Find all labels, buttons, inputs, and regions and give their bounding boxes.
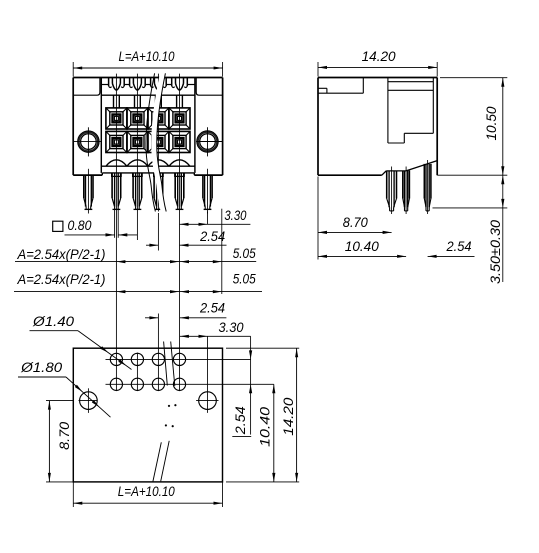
label Ø1.40 with leader: [30, 314, 132, 370]
svg-text:0.80: 0.80: [68, 218, 92, 233]
svg-text:Ø1.80: Ø1.80: [20, 360, 63, 375]
dimension 8.70 (big hole to board edge): [46, 401, 73, 482]
svg-text:2.54: 2.54: [446, 239, 472, 254]
front view solder pin col2: [133, 173, 142, 209]
front view solder pin col1: [112, 173, 121, 209]
svg-text:10.50: 10.50: [484, 106, 499, 140]
side view front pin row: [387, 171, 397, 211]
footprint break lines: [153, 342, 175, 482]
front view bottom scallop arcs: [101, 160, 195, 166]
svg-text:3.50±0.30: 3.50±0.30: [488, 219, 503, 284]
footprint right big hole (diam 1.80): [196, 336, 218, 413]
front view flange solder pin left: [84, 175, 93, 209]
dimension 14.20 (side view width): [318, 49, 437, 76]
dimension 14.20 vertical (board height): [226, 348, 299, 482]
label Ø1.80 with leader: [18, 360, 111, 417]
svg-text:5.05: 5.05: [233, 271, 256, 286]
svg-text:2.54: 2.54: [199, 301, 225, 316]
front view right flange mounting hole: [196, 127, 223, 156]
footprint small holes grid (diam 1.40): [106, 353, 274, 392]
dimension 2.54 (front pin pitch): [146, 229, 227, 247]
extension lines from front pins: [116, 212, 207, 392]
svg-text:A=2.54x(P/2-1): A=2.54x(P/2-1): [17, 247, 106, 262]
dimension 2.54 (footprint hole pitch): [145, 301, 226, 320]
dimension 3.30 (front last pin to flange pin): [180, 208, 251, 294]
front view flange pin centre lines: [88, 169, 207, 214]
side view internal contact chamber: [388, 78, 433, 144]
svg-text:10.40: 10.40: [257, 406, 272, 447]
svg-text:2.54: 2.54: [199, 229, 225, 244]
front view recess walls: [101, 78, 195, 173]
front view top corner blocks: [73, 78, 222, 96]
side view middle pin: [403, 171, 410, 211]
front view solder pin col4: [175, 173, 184, 209]
side view body outline: [318, 78, 437, 176]
side view rear pin: [424, 164, 431, 211]
svg-text:14.20: 14.20: [362, 49, 396, 64]
front view contact sockets (2 rows x 4): [106, 108, 190, 153]
front view flange solder pin right: [203, 175, 212, 209]
front view left flange mounting hole: [74, 127, 102, 156]
svg-text:Ø1.40: Ø1.40: [32, 314, 75, 329]
dimension 2.54 vertical (footprint row pitch): [232, 336, 252, 436]
front view top castellations: [101, 78, 195, 108]
svg-text:A=2.54x(P/2-1): A=2.54x(P/2-1): [17, 272, 106, 287]
dimension L=A+10.10 (board width): [73, 482, 222, 507]
front view solder pin col3: [154, 173, 163, 209]
svg-text:3.30: 3.30: [219, 320, 244, 335]
side view pin centre lines: [392, 160, 428, 214]
footprint board outline: [73, 348, 222, 482]
dimension 2.54 (side view pin pitch): [428, 239, 475, 258]
svg-text:3.30: 3.30: [224, 208, 246, 223]
svg-text:2.54: 2.54: [233, 406, 248, 435]
svg-text:8.70: 8.70: [343, 215, 368, 230]
dimension 10.50 (side view height): [437, 78, 507, 176]
svg-text:L=A+10.10: L=A+10.10: [119, 49, 175, 64]
footprint left big hole (diam 1.80): [79, 388, 98, 413]
svg-text:8.70: 8.70: [57, 421, 72, 450]
svg-text:10.40: 10.40: [345, 239, 379, 254]
front view break lines (wavy): [146, 73, 166, 211]
dimension 10.40 (side view pin offset 2): [318, 239, 406, 258]
dimension A=2.54x(P/2-1) row 1 with 5.05: [15, 246, 256, 263]
front view pin collars under body: [112, 173, 185, 177]
dimension L=A+10.10 (front view width): [73, 49, 222, 76]
svg-text:L=A+10.10: L=A+10.10: [118, 484, 175, 499]
dimension square 0.80 (pin cross-section): [53, 210, 137, 238]
dimension A=2.54x(P/2-1) row 2 with 5.05: [14, 271, 262, 293]
footprint continuation dots: [165, 404, 177, 427]
front view column centre lines: [116, 74, 179, 212]
dimension 3.30 (footprint col4 to big hole): [180, 320, 251, 338]
front view connector body outline: [73, 78, 222, 176]
svg-text:14.20: 14.20: [281, 397, 296, 436]
dimension 8.70 (side view pin offset): [318, 177, 392, 260]
dimension 3.50±0.30 (pin length): [433, 175, 508, 284]
side view top-left latch notch: [318, 78, 363, 94]
dimension 10.40 vertical (row2 to board bottom): [257, 384, 275, 482]
svg-text:5.05: 5.05: [233, 246, 256, 261]
